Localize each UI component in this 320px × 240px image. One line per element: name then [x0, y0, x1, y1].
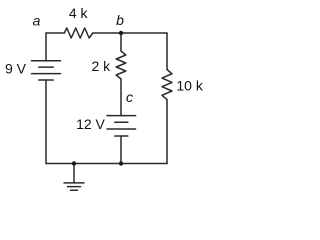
wire bottom — [46, 163, 167, 165]
ground stem wire — [73, 164, 75, 183]
resistor R 4k — [64, 28, 93, 38]
junction dot ground — [72, 161, 76, 165]
wire left upper (a down to 9V battery) — [45, 33, 47, 61]
battery V1 9V plate short bottom — [39, 79, 53, 81]
wire right lower (10k to bottom) — [166, 100, 168, 164]
battery V2 12V plate long bottom — [107, 128, 136, 130]
battery V1 9V plate short — [39, 66, 53, 68]
ground bar 2 — [68, 186, 81, 188]
wire node b down to 2k — [120, 33, 122, 51]
svg-text:b: b — [116, 12, 124, 28]
battery V1 9V plate long top — [32, 60, 61, 62]
svg-text:10 k: 10 k — [176, 78, 203, 94]
ground bar 3 — [71, 189, 78, 191]
svg-text:2 k: 2 k — [91, 58, 111, 74]
ground bar 1 — [64, 182, 84, 184]
wire right upper (corner down to 10k) — [166, 33, 168, 70]
svg-text:9 V: 9 V — [5, 60, 27, 76]
wire top-right (resistor to b to right corner) — [93, 32, 167, 34]
battery V2 12V plate short — [115, 121, 128, 123]
battery V2 12V plate long top — [107, 115, 136, 117]
svg-text:12 V: 12 V — [76, 116, 105, 132]
wire node c (2k to 12V battery) — [120, 79, 122, 116]
wire left lower (battery to bottom wire) — [45, 80, 47, 164]
resistor R 10k — [162, 70, 172, 100]
battery V1 9V plate long bottom — [32, 73, 61, 75]
node b junction dot — [119, 31, 123, 35]
junction dot middle-bottom — [119, 161, 123, 165]
wire 12V battery to bottom — [120, 136, 122, 164]
svg-text:a: a — [33, 12, 41, 28]
battery V2 12V plate short bottom — [115, 135, 128, 137]
svg-text:c: c — [126, 89, 133, 105]
svg-text:4 k: 4 k — [69, 5, 89, 21]
wire top-left (a to resistor) — [46, 32, 64, 34]
resistor R 2k — [116, 51, 126, 79]
